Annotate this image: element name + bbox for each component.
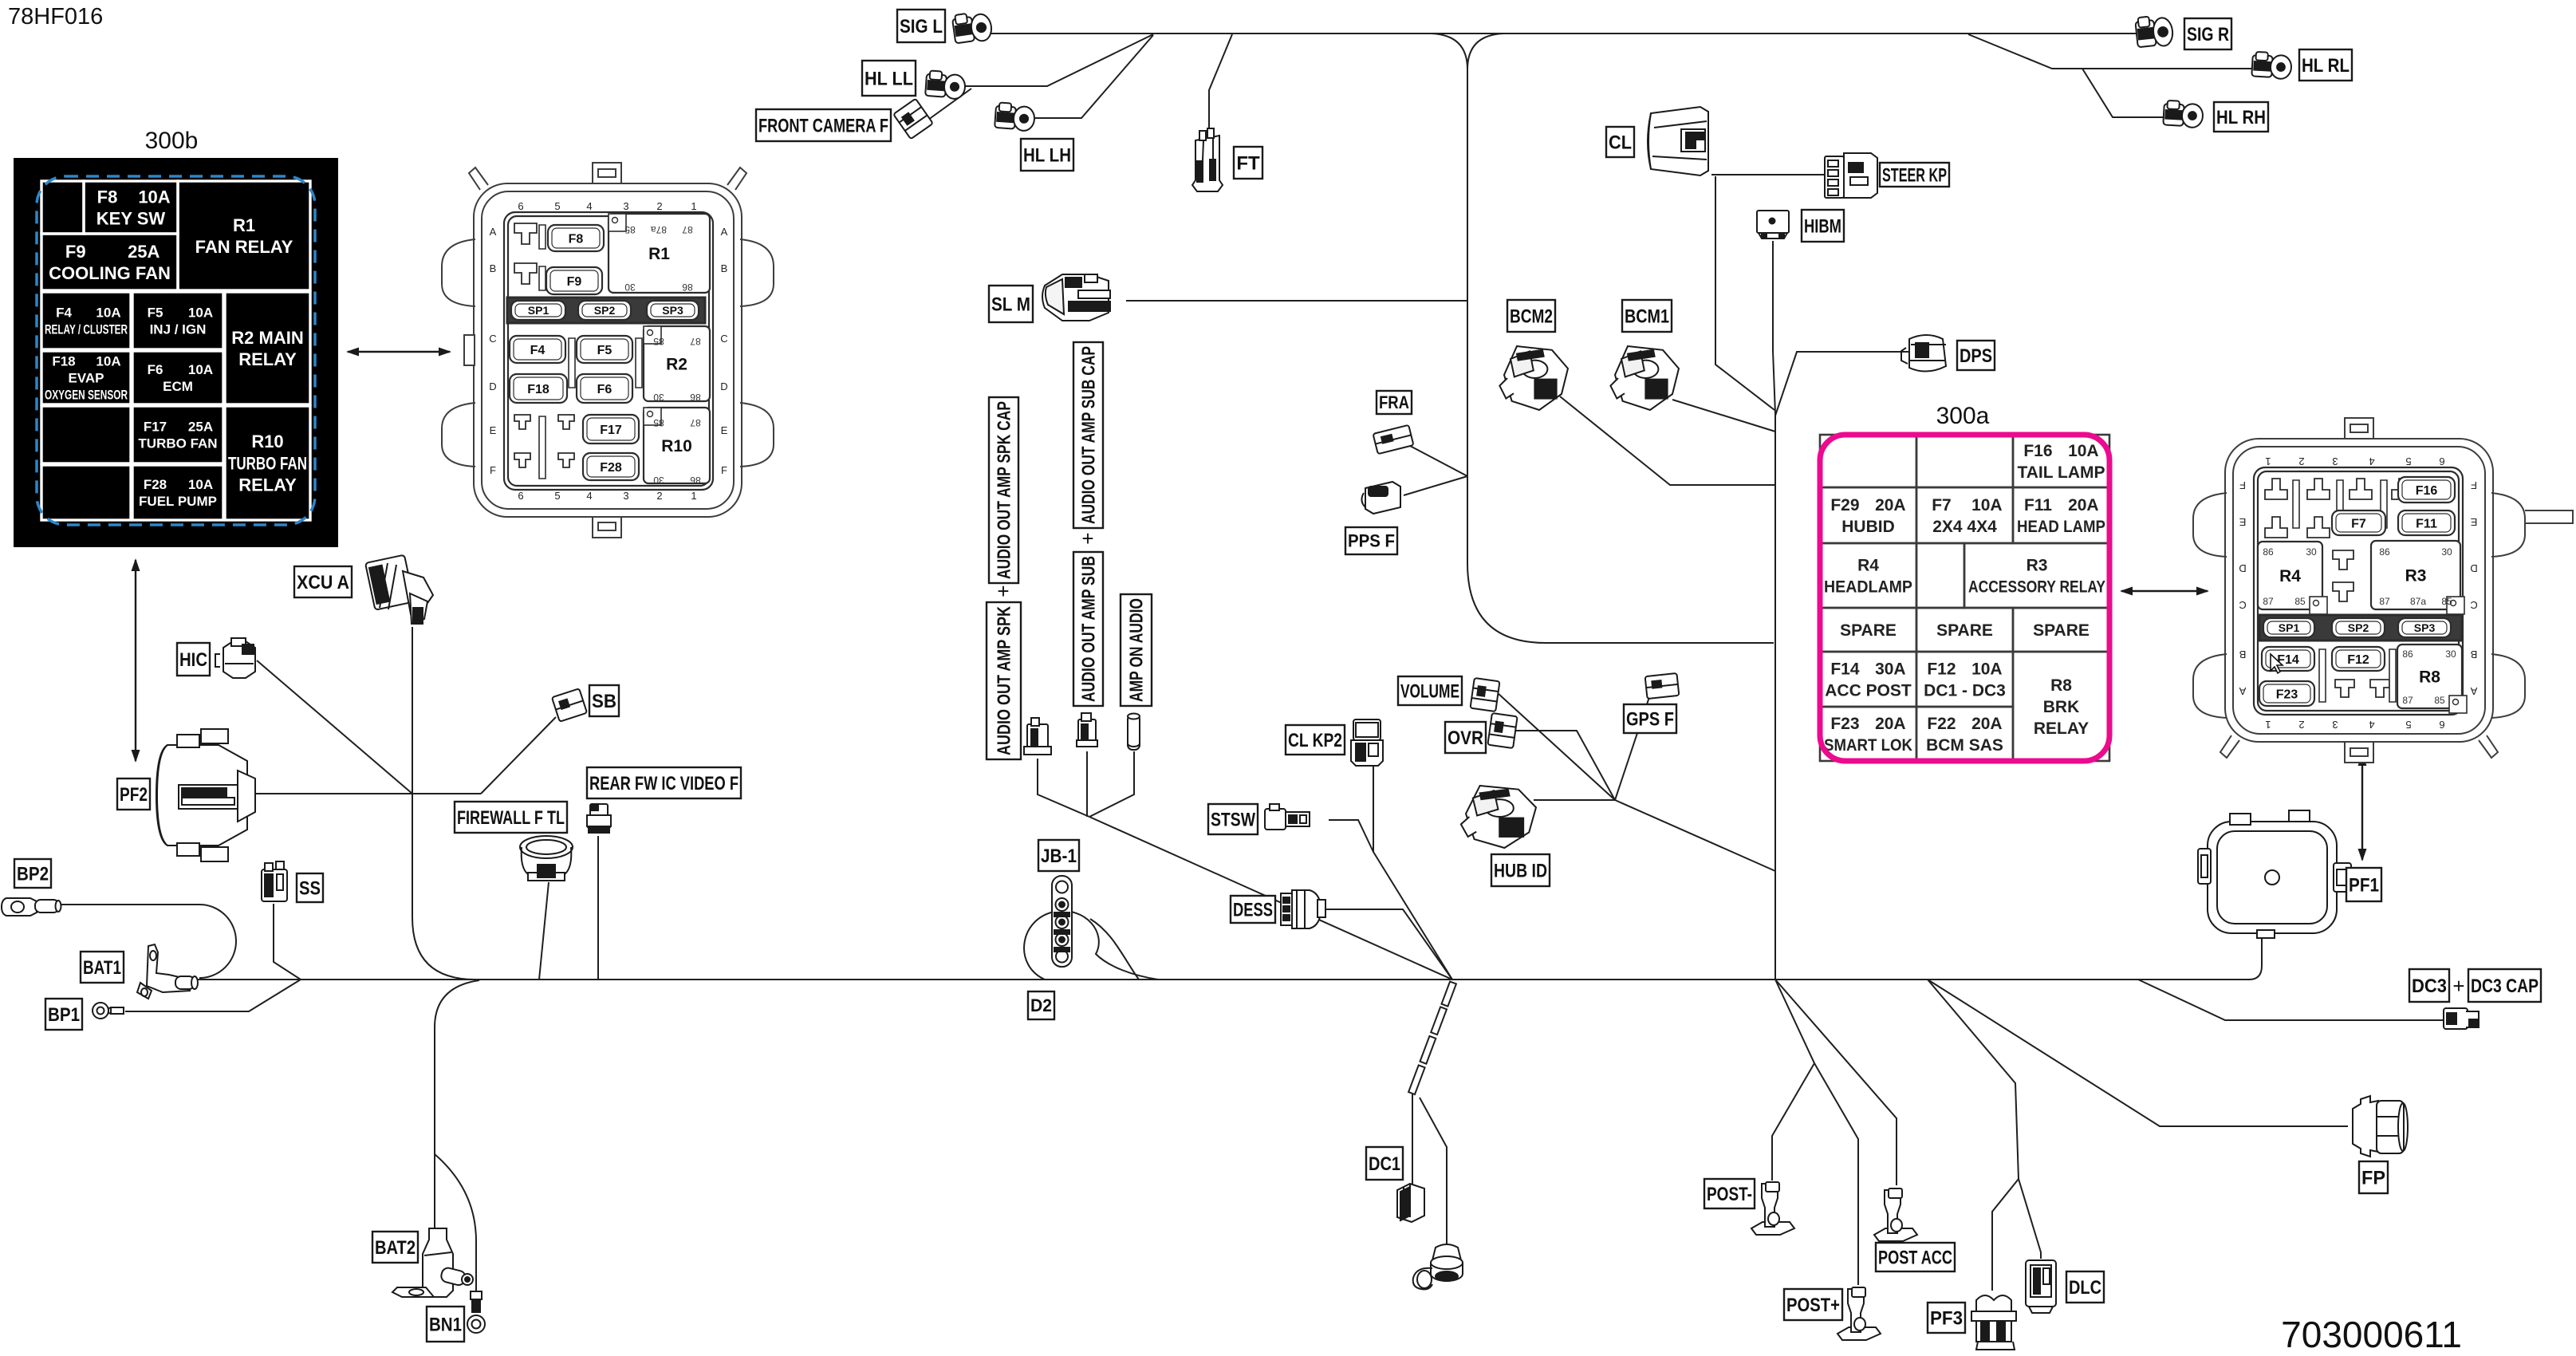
connector DC1 — [1397, 1184, 1424, 1222]
wire sleeve segments D2 to DC1 — [1408, 982, 1456, 1095]
svg-text:20A: 20A — [1875, 715, 1906, 733]
svg-text:F16: F16 — [2416, 484, 2438, 498]
wire PF3 drop — [1928, 980, 2019, 1291]
svg-text:HIBM: HIBM — [1804, 215, 1841, 237]
svg-text:XCU A: XCU A — [297, 572, 349, 593]
svg-text:10A: 10A — [1971, 496, 2003, 514]
svg-text:EVAP: EVAP — [68, 371, 104, 386]
label VOLUME — [1398, 676, 1462, 705]
label POST- — [1704, 1179, 1755, 1208]
svg-text:A: A — [2470, 685, 2477, 697]
svg-text:HIC: HIC — [179, 649, 207, 671]
fuse box right: fuse F7 — [2332, 510, 2385, 535]
label PF1 — [2346, 868, 2381, 901]
svg-text:1: 1 — [2265, 719, 2271, 731]
svg-text:30: 30 — [2441, 546, 2452, 558]
svg-text:+: + — [2452, 974, 2464, 998]
svg-text:BAT2: BAT2 — [375, 1237, 416, 1259]
svg-text:F6: F6 — [148, 362, 163, 377]
svg-text:20A: 20A — [1971, 715, 2003, 733]
svg-text:4: 4 — [586, 490, 592, 502]
label HL RH — [2214, 102, 2268, 132]
fuse box left: fuse F17 — [583, 415, 639, 443]
wire DPS branch — [1775, 352, 1908, 416]
svg-text:AUDIO OUT AMP SPK CAP: AUDIO OUT AMP SPK CAP — [994, 401, 1014, 579]
fuse box left: fuse F18 — [510, 374, 567, 403]
svg-text:ECM: ECM — [163, 379, 193, 394]
svg-text:B: B — [2471, 648, 2478, 660]
svg-text:2: 2 — [656, 200, 662, 212]
wire BAT2 drop — [435, 980, 479, 1231]
wire FIREWALL F TL drop — [539, 882, 549, 980]
connector STEER KP — [1825, 153, 1877, 198]
wire funnel drop at x1840 to loop corner joining node vertical — [1432, 34, 1774, 643]
label BAT2 — [372, 1232, 418, 1263]
svg-text:5: 5 — [2405, 455, 2411, 467]
connector PF3 — [1971, 1295, 2016, 1350]
module PF1 — [2198, 810, 2351, 938]
svg-text:BAT1: BAT1 — [83, 957, 121, 979]
label SIG R — [2184, 18, 2231, 49]
connector HIBM — [1757, 211, 1789, 238]
svg-text:C: C — [720, 333, 727, 345]
wire GPS F branch — [1615, 697, 1649, 800]
svg-text:4: 4 — [2369, 455, 2374, 467]
connector FT — [1192, 128, 1223, 191]
wire audio node diagonal to trunk D2 — [1089, 817, 1452, 980]
svg-text:SPARE: SPARE — [1840, 621, 1897, 640]
svg-text:FAN RELAY: FAN RELAY — [195, 237, 293, 257]
label SB — [589, 685, 619, 716]
svg-text:F23: F23 — [1830, 715, 1859, 733]
wire FT drop — [1209, 34, 1232, 136]
svg-text:R3: R3 — [2405, 567, 2427, 585]
svg-text:87: 87 — [2379, 596, 2390, 607]
wire POST- drop — [1772, 980, 1814, 1181]
svg-text:3: 3 — [623, 200, 628, 212]
svg-text:F4: F4 — [56, 305, 72, 321]
svg-text:BN1: BN1 — [429, 1314, 462, 1335]
wire SL M branch — [1126, 300, 1467, 302]
svg-text:PF1: PF1 — [2349, 874, 2379, 896]
svg-text:SP2: SP2 — [2348, 621, 2369, 634]
svg-text:FP: FP — [2361, 1167, 2385, 1188]
label GPS F — [1624, 704, 1676, 733]
svg-text:DC3: DC3 — [2412, 976, 2447, 997]
svg-text:POST+: POST+ — [1786, 1295, 1840, 1316]
svg-text:R8: R8 — [2419, 668, 2440, 687]
svg-text:30: 30 — [653, 475, 664, 486]
svg-text:F8: F8 — [97, 187, 118, 207]
svg-text:85: 85 — [653, 417, 664, 428]
svg-text:F12: F12 — [2347, 653, 2369, 667]
svg-text:2X4 4X4: 2X4 4X4 — [1932, 518, 1997, 536]
svg-text:HUB ID: HUB ID — [1494, 860, 1547, 881]
svg-text:POST ACC: POST ACC — [1878, 1247, 1952, 1268]
svg-text:GPS F: GPS F — [1626, 708, 1674, 730]
svg-text:HEADLAMP: HEADLAMP — [1824, 578, 1912, 597]
connector SL M — [1042, 274, 1110, 321]
svg-text:C: C — [489, 333, 496, 345]
svg-text:SIG L: SIG L — [900, 16, 943, 37]
svg-text:TURBO FAN: TURBO FAN — [138, 436, 217, 451]
svg-text:1: 1 — [2265, 455, 2271, 467]
svg-text:10A: 10A — [188, 477, 213, 492]
label HIC — [177, 643, 210, 676]
component JB-1 junction bar — [1052, 876, 1072, 967]
connector HL RH — [2163, 101, 2204, 128]
svg-text:86: 86 — [682, 282, 693, 293]
wire PF1 stub — [2261, 928, 2263, 930]
svg-text:6: 6 — [518, 200, 523, 212]
wire XCU A drop to trunk — [412, 627, 475, 980]
wire CL KP2 drop to trunk — [1373, 765, 1452, 980]
svg-text:BCM1: BCM1 — [1625, 305, 1669, 327]
svg-text:F7: F7 — [2351, 517, 2366, 530]
svg-text:OXYGEN SENSOR: OXYGEN SENSOR — [45, 388, 128, 403]
label DPS — [1957, 341, 1995, 370]
label SIG L — [897, 10, 945, 42]
svg-text:SP1: SP1 — [528, 304, 549, 317]
connector HUB ID — [1461, 786, 1536, 848]
label AMP ON AUDIO — [1121, 594, 1152, 706]
svg-text:RELAY: RELAY — [238, 475, 297, 495]
label AUDIO OUT AMP SPK CAP — [989, 397, 1018, 583]
svg-text:R10: R10 — [661, 437, 692, 455]
svg-text:BP1: BP1 — [48, 1004, 80, 1026]
svg-text:F9: F9 — [567, 275, 582, 289]
svg-text:F17: F17 — [600, 424, 622, 437]
fuse box right: fuse F11 — [2398, 510, 2455, 535]
svg-text:TAIL LAMP: TAIL LAMP — [2017, 463, 2105, 482]
svg-text:F9: F9 — [65, 242, 86, 262]
svg-text:86: 86 — [2263, 546, 2274, 558]
connector HL RL — [2251, 52, 2292, 80]
svg-text:+: + — [1081, 526, 1093, 550]
svg-text:E: E — [2470, 516, 2477, 528]
svg-text:F11: F11 — [2024, 496, 2052, 514]
svg-text:30: 30 — [2445, 648, 2456, 660]
svg-text:6: 6 — [2439, 455, 2444, 467]
svg-text:4: 4 — [586, 200, 592, 212]
svg-text:85: 85 — [624, 224, 636, 235]
connector FIREWALL F TL — [520, 836, 573, 881]
svg-text:SL M: SL M — [991, 294, 1030, 315]
wire audio caps to node — [1038, 751, 1134, 817]
svg-text:DESS: DESS — [1233, 899, 1273, 920]
wire FP branch — [1928, 980, 2348, 1126]
arrow 300a table to fuse box — [2120, 587, 2209, 596]
svg-text:OVR: OVR — [1448, 727, 1483, 749]
connector BCM1 — [1610, 346, 1679, 410]
label STSW — [1208, 804, 1258, 834]
svg-text:SP3: SP3 — [662, 304, 683, 317]
label FIREWALL F TL — [455, 802, 567, 833]
svg-text:HUBID: HUBID — [1841, 518, 1895, 536]
connector CL KP2 — [1351, 719, 1383, 766]
connector BAT1 — [137, 944, 198, 999]
svg-text:HEAD LAMP: HEAD LAMP — [2017, 518, 2105, 536]
svg-text:AUDIO OUT AMP SUB: AUDIO OUT AMP SUB — [1078, 556, 1099, 702]
svg-text:REAR FW IC VIDEO F: REAR FW IC VIDEO F — [589, 773, 739, 794]
label AUDIO OUT AMP SPK — [987, 602, 1021, 759]
svg-text:86: 86 — [690, 392, 701, 403]
svg-text:5: 5 — [2405, 719, 2411, 731]
svg-text:PF2: PF2 — [120, 784, 148, 806]
wire HIC diagonal — [257, 660, 412, 794]
svg-text:4: 4 — [2369, 719, 2374, 731]
svg-text:3: 3 — [2332, 455, 2338, 467]
svg-text:25A: 25A — [188, 420, 213, 435]
svg-text:D: D — [2239, 562, 2246, 574]
fuse box left: pins row AB — [514, 223, 537, 244]
svg-text:SB: SB — [592, 691, 616, 712]
svg-text:85: 85 — [2434, 695, 2445, 706]
connector BCM2 — [1499, 346, 1568, 410]
svg-text:78HF016: 78HF016 — [8, 4, 103, 30]
svg-text:87: 87 — [682, 224, 693, 235]
connector HL LH — [995, 102, 1035, 131]
svg-text:DPS: DPS — [1960, 345, 1992, 367]
svg-text:RELAY / CLUSTER: RELAY / CLUSTER — [45, 322, 128, 337]
wire SB diagonal — [481, 717, 556, 794]
svg-text:20A: 20A — [1875, 496, 1906, 514]
svg-text:R10: R10 — [251, 432, 283, 451]
svg-text:2: 2 — [2298, 719, 2304, 731]
svg-text:30: 30 — [2306, 546, 2317, 558]
svg-text:B: B — [2239, 648, 2247, 660]
fuse box right: pins top rows — [2265, 479, 2287, 499]
fuse legend table 300a — [1820, 435, 2109, 761]
svg-text:R4: R4 — [2279, 567, 2301, 585]
wire POST ACC drop — [1775, 980, 1897, 1185]
svg-text:R4: R4 — [1857, 557, 1879, 575]
svg-text:10A: 10A — [1971, 660, 2003, 679]
svg-text:AMP ON AUDIO: AMP ON AUDIO — [1126, 598, 1147, 702]
fuse legend table 300b — [14, 158, 338, 547]
fuse box left: pin stems CD — [569, 338, 642, 388]
label HIBM — [1802, 210, 1844, 242]
svg-text:E: E — [721, 424, 728, 436]
svg-text:10A: 10A — [188, 362, 213, 377]
connector OVR — [1487, 713, 1517, 748]
svg-text:D: D — [489, 380, 496, 392]
svg-text:STEER KP: STEER KP — [1882, 164, 1947, 186]
svg-text:BRK: BRK — [2043, 698, 2080, 716]
svg-text:85: 85 — [2441, 596, 2452, 607]
label DLC — [2066, 1271, 2104, 1303]
svg-text:FT: FT — [1236, 152, 1260, 174]
wire FRA branch — [1410, 446, 1467, 476]
svg-text:10A: 10A — [188, 305, 213, 321]
svg-text:1: 1 — [691, 200, 696, 212]
svg-text:25A: 25A — [128, 242, 160, 262]
svg-text:FRONT CAMERA F: FRONT CAMERA F — [758, 115, 888, 136]
svg-text:300a: 300a — [1936, 403, 1990, 429]
svg-text:86: 86 — [2402, 648, 2413, 660]
arrow fuse box 300b link — [346, 348, 451, 357]
connector BP2 — [2, 898, 61, 916]
connector AMP ON AUDIO cap — [1128, 714, 1140, 751]
fuse box right: fuse F14 — [2262, 647, 2314, 671]
connector SS — [262, 861, 287, 901]
connector DLC — [2026, 1260, 2056, 1313]
svg-text:10A: 10A — [138, 187, 170, 207]
wire CL to STEER KP — [1711, 174, 1825, 175]
svg-text:F18: F18 — [527, 383, 549, 396]
wire JB-1 loop outer — [1024, 911, 1158, 980]
wire DC1 drop — [1412, 1094, 1413, 1185]
svg-text:300b: 300b — [145, 128, 199, 154]
label PPS F — [1345, 527, 1397, 554]
svg-text:A: A — [490, 226, 497, 238]
svg-text:F18: F18 — [52, 354, 75, 369]
label OVR — [1445, 722, 1486, 753]
svg-text:2: 2 — [656, 490, 662, 502]
connector FRONT CAMERA F — [893, 99, 933, 140]
svg-text:R1: R1 — [233, 215, 255, 235]
svg-text:JB-1: JB-1 — [1041, 846, 1077, 867]
svg-text:ACC POST: ACC POST — [1825, 682, 1912, 700]
svg-text:C: C — [2239, 599, 2246, 611]
svg-text:B: B — [490, 262, 497, 274]
wire DESS branch — [1320, 909, 1452, 980]
svg-text:87: 87 — [2263, 596, 2274, 607]
svg-text:ACCESSORY RELAY: ACCESSORY RELAY — [1968, 578, 2105, 597]
connector BN1 — [467, 1291, 485, 1333]
wire HL LH branch — [1035, 35, 1153, 118]
label CL — [1606, 127, 1634, 157]
fuse box right: spare row — [2259, 615, 2462, 641]
label CL KP2 — [1286, 725, 1345, 755]
fuse box left: fuse F4 — [510, 336, 565, 363]
label POST+ — [1784, 1289, 1842, 1320]
label SS — [297, 873, 323, 902]
wire REAR FW IC VIDEO F drop — [597, 836, 599, 980]
fuse box left: fuse F6 — [577, 374, 632, 403]
svg-text:B: B — [721, 262, 728, 274]
fuse box left: fuse F28 — [583, 453, 639, 480]
wire OVR branch — [1514, 731, 1615, 800]
fuse box left: relay R10 — [644, 408, 710, 486]
svg-text:5: 5 — [554, 490, 560, 502]
svg-text:DLC: DLC — [2069, 1277, 2101, 1299]
svg-text:87a: 87a — [2410, 596, 2426, 607]
connector POST+ — [1837, 1287, 1881, 1340]
svg-text:KEY SW: KEY SW — [97, 209, 166, 229]
svg-text:30: 30 — [624, 282, 636, 293]
label HL RL — [2299, 49, 2352, 81]
wire HIBM DPS node vertical to trunk — [1773, 241, 1775, 980]
wire PPS F branch — [1404, 476, 1467, 495]
wire DC3 branch — [2138, 980, 2443, 1020]
wire DC1 socket drop — [1420, 1098, 1447, 1245]
svg-text:F28: F28 — [144, 477, 167, 492]
svg-text:BP2: BP2 — [17, 863, 49, 885]
wire audio node to vertical — [1615, 800, 1775, 871]
connector VOLUME — [1471, 678, 1500, 712]
fuse box right: pins bottom — [2335, 680, 2354, 697]
label DC1 — [1366, 1147, 1403, 1180]
svg-text:5: 5 — [554, 200, 560, 212]
connector GPS F — [1645, 673, 1680, 699]
svg-text:F: F — [490, 464, 496, 476]
svg-text:AUDIO OUT AMP SPK: AUDIO OUT AMP SPK — [994, 606, 1014, 755]
svg-text:R2: R2 — [666, 356, 687, 374]
label SL M — [989, 286, 1033, 322]
svg-text:BCM2: BCM2 — [1510, 305, 1553, 327]
svg-text:A: A — [721, 226, 728, 238]
label FRA — [1377, 391, 1412, 414]
wire BP1 branch — [125, 980, 301, 1011]
connector REAR FW IC VIDEO F — [587, 804, 611, 833]
fuse box right: relay R4 — [2258, 542, 2327, 614]
svg-text:SS: SS — [299, 877, 321, 899]
svg-text:DC3 CAP: DC3 CAP — [2471, 976, 2539, 997]
label BCM2 — [1507, 300, 1555, 332]
connector AUDIO OUT AMP SPK CAP — [1024, 718, 1051, 755]
fuse box right: fuse F16 — [2398, 477, 2455, 503]
label XCU A — [294, 566, 352, 597]
connector PF2 — [156, 729, 255, 861]
svg-text:F5: F5 — [597, 344, 612, 357]
svg-text:BCM SAS: BCM SAS — [1926, 736, 2003, 755]
svg-text:87: 87 — [690, 336, 701, 347]
svg-text:CL KP2: CL KP2 — [1288, 730, 1342, 751]
svg-text:POST-: POST- — [1707, 1184, 1752, 1205]
wire SS drop — [274, 904, 301, 980]
svg-text:TURBO FAN: TURBO FAN — [228, 453, 307, 473]
fuse box housing rear (right drawing) — [2193, 418, 2573, 763]
connector PPS F — [1361, 482, 1400, 514]
svg-text:HL RH: HL RH — [2216, 107, 2266, 128]
svg-text:F23: F23 — [2276, 688, 2298, 701]
label HL LL — [862, 61, 916, 96]
fuse box right: pins mid — [2333, 550, 2353, 570]
svg-text:87: 87 — [690, 417, 701, 428]
connector DC1 socket — [1413, 1244, 1463, 1289]
wire JB-1 loop inner — [1090, 919, 1139, 980]
svg-text:D: D — [720, 380, 727, 392]
connector AUDIO OUT AMP SUB CAP — [1077, 713, 1097, 747]
wire HUB ID branch — [1534, 799, 1615, 801]
svg-text:FRA: FRA — [1379, 392, 1409, 412]
label REAR FW IC VIDEO F — [587, 767, 741, 798]
svg-text:30A: 30A — [1875, 660, 1906, 679]
connector DPS — [1901, 335, 1946, 372]
svg-text:STSW: STSW — [1211, 809, 1255, 830]
fuse box left: spare row SP1 SP2 SP3 — [507, 298, 705, 323]
svg-text:87a: 87a — [651, 224, 667, 235]
wire HL LL branch — [963, 34, 1153, 86]
arrow fuse box to PF1 — [2358, 753, 2367, 861]
svg-text:85: 85 — [2294, 596, 2306, 607]
svg-text:F8: F8 — [569, 232, 584, 246]
wire BCM2 branch — [1560, 396, 1775, 485]
wire main trunk lower harness — [194, 930, 2262, 980]
connector BAT2 — [392, 1228, 473, 1297]
fuse box right: fuse F12 — [2332, 647, 2385, 671]
svg-text:20A: 20A — [2068, 496, 2099, 514]
svg-text:E: E — [2239, 516, 2246, 528]
svg-text:COOLING FAN: COOLING FAN — [49, 263, 171, 283]
svg-text:HL RL: HL RL — [2302, 55, 2350, 77]
wire HL RH branch — [2082, 69, 2166, 117]
svg-text:DC1: DC1 — [1369, 1153, 1400, 1175]
connector HL LL — [925, 70, 966, 99]
label BN1 — [427, 1307, 464, 1342]
label DESS — [1231, 896, 1275, 923]
